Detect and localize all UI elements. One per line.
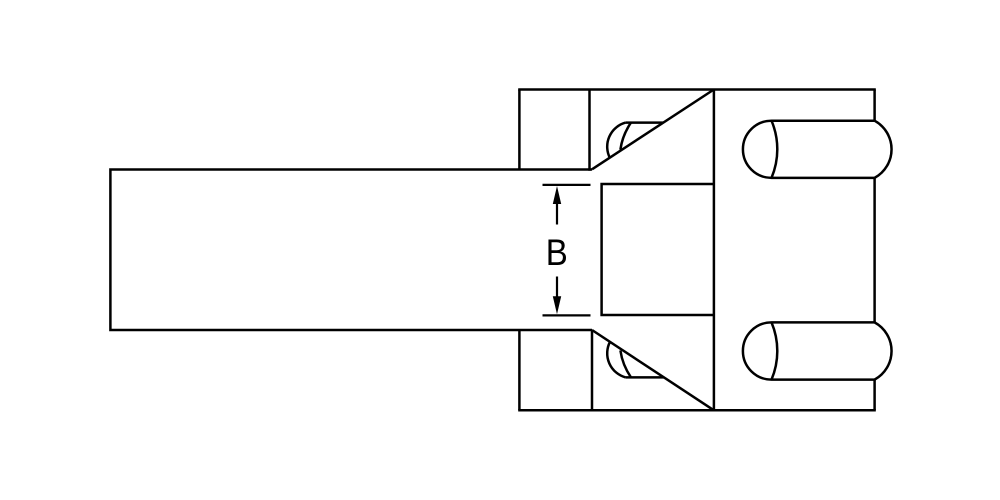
svg-text:B: B xyxy=(546,232,568,273)
